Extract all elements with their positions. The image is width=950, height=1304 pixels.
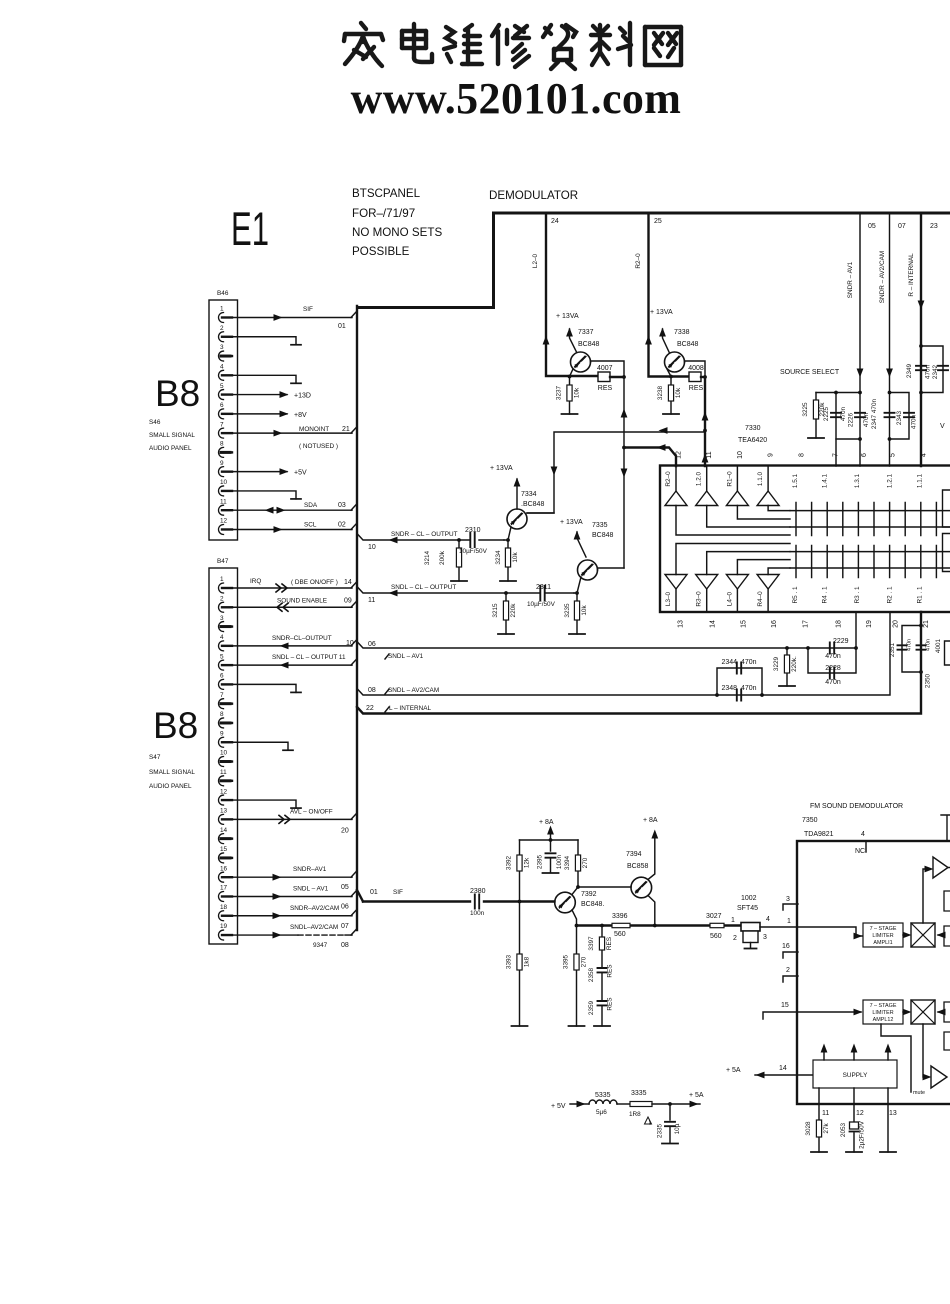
svg-text:05: 05: [341, 884, 349, 891]
svg-text:R3 . 1: R3 . 1: [854, 586, 861, 603]
svg-text:NO MONO SETS: NO MONO SETS: [352, 226, 442, 239]
buffer amp R2-0 (input): [665, 491, 687, 506]
svg-text:SNDR–AV2/CAM: SNDR–AV2/CAM: [290, 905, 339, 912]
svg-text:5335: 5335: [595, 1092, 611, 1099]
wire SNDL-CL-OUTPUT pin5: [226, 664, 352, 666]
svg-text:3225: 3225: [802, 402, 809, 417]
resistor 3027 560: [710, 923, 724, 927]
buffer amp R4-0 (output): [757, 575, 779, 590]
svg-text:BTSCPANEL: BTSCPANEL: [352, 187, 421, 200]
svg-text:4: 4: [861, 831, 865, 838]
svg-text:2µ2F/50V: 2µ2F/50V: [859, 1120, 866, 1149]
svg-text:NC: NC: [855, 848, 865, 855]
svg-text:TDA9821: TDA9821: [804, 831, 834, 838]
svg-text:L4–0: L4–0: [726, 591, 733, 606]
svg-text:16: 16: [782, 943, 790, 950]
svg-text:R2–0: R2–0: [635, 253, 642, 269]
svg-text:POSSIBLE: POSSIBLE: [352, 245, 410, 258]
svg-text:SIF: SIF: [303, 306, 313, 313]
svg-text:BC848: BC848: [592, 532, 614, 539]
svg-text:SNDR–CL–OUTPUT: SNDR–CL–OUTPUT: [272, 635, 332, 642]
resistor 3215 220k: [504, 591, 508, 595]
svg-text:25: 25: [654, 218, 662, 225]
wire SNDL-AV2/CAM (08) to pin 20: [357, 612, 890, 695]
svg-text:7338: 7338: [674, 329, 690, 336]
svg-text:2225: 2225: [823, 406, 830, 421]
svg-text:02: 02: [338, 521, 346, 528]
svg-text:3392: 3392: [506, 855, 513, 870]
svg-text:06: 06: [341, 903, 349, 910]
capacitor 2226 470n: [855, 413, 865, 417]
svg-text:270: 270: [582, 857, 589, 868]
ground stub pin12: [226, 800, 296, 808]
capacitor 2343: [890, 393, 910, 440]
svg-text:FM SOUND DEMODULATOR: FM SOUND DEMODULATOR: [810, 803, 903, 810]
connector B46: [209, 300, 238, 540]
svg-text:S47: S47: [149, 754, 161, 761]
wire SCL pin12: [226, 528, 352, 530]
svg-text:270: 270: [581, 956, 588, 967]
svg-text:mute: mute: [913, 1090, 925, 1096]
svg-text:5µ6: 5µ6: [596, 1109, 607, 1116]
svg-text:AUDIO PANEL: AUDIO PANEL: [149, 783, 192, 790]
svg-text:1.2.1: 1.2.1: [887, 473, 894, 488]
svg-text:1R8: 1R8: [629, 1111, 641, 1118]
svg-text:06: 06: [368, 641, 376, 648]
wire R-INTERNAL (23): [920, 214, 922, 466]
svg-text:10: 10: [346, 640, 354, 647]
supply +8A arrow: [550, 829, 552, 840]
svg-text:2343: 2343: [896, 410, 903, 425]
svg-text:1: 1: [731, 917, 735, 924]
capacitor 2335 10u: [668, 1102, 672, 1106]
svg-text:.BC848: .BC848: [521, 501, 544, 508]
svg-text:14: 14: [710, 620, 717, 628]
svg-text:L – INTERNAL: L – INTERNAL: [389, 705, 431, 712]
svg-text:2: 2: [220, 325, 224, 332]
svg-text:B46: B46: [217, 290, 229, 297]
svg-text:2053: 2053: [840, 1122, 847, 1137]
crossbar grid (bottom): [790, 552, 950, 568]
svg-text:12k: 12k: [524, 857, 531, 868]
wire SNDL-AV1 (06) to pin 19: [357, 642, 856, 649]
svg-text:10k: 10k: [512, 552, 519, 563]
svg-text:SNDR – AV2/CAM: SNDR – AV2/CAM: [879, 251, 886, 303]
svg-text:2358: 2358: [588, 967, 595, 982]
svg-text:2311: 2311: [536, 584, 551, 591]
resistor 3235 10k: [575, 591, 579, 595]
svg-text:R2 . 1: R2 . 1: [887, 586, 894, 603]
svg-text:14: 14: [779, 1065, 787, 1072]
capacitor 2342: [921, 346, 943, 393]
svg-text:+ 5A: + 5A: [689, 1092, 704, 1099]
svg-text:SFT45: SFT45: [737, 905, 758, 912]
capacitor 2347 470n: [889, 393, 891, 467]
ground stub pin10: [226, 491, 296, 499]
svg-text:+13D: +13D: [294, 393, 311, 400]
svg-text:14: 14: [220, 827, 228, 834]
svg-text:470n: 470n: [840, 406, 847, 421]
resistor 3394 270: [577, 840, 579, 887]
svg-text:SCL: SCL: [304, 521, 317, 528]
svg-text:10: 10: [220, 479, 228, 486]
svg-text:1.5.1: 1.5.1: [792, 473, 799, 488]
svg-text:AVL – ON/OFF: AVL – ON/OFF: [290, 808, 333, 815]
buffer amp L4-0 (output): [726, 575, 748, 590]
svg-text:V: V: [940, 423, 945, 430]
svg-text:18: 18: [220, 904, 228, 911]
svg-text:220k: 220k: [510, 603, 517, 618]
svg-text:470n: 470n: [825, 653, 841, 660]
svg-text:1: 1: [787, 918, 791, 925]
pin 16 stub: [783, 952, 798, 958]
wire node to TEA6420 pin 12: [623, 377, 625, 568]
svg-text:3238: 3238: [657, 385, 664, 400]
svg-text:11: 11: [822, 1110, 829, 1117]
svg-text:RES: RES: [607, 997, 614, 1010]
svg-text:RES: RES: [689, 385, 704, 392]
svg-text:16: 16: [220, 865, 228, 872]
svg-text:2310: 2310: [465, 527, 481, 534]
svg-text:200k: 200k: [439, 550, 446, 565]
svg-text:5: 5: [220, 653, 224, 660]
connector B47: [209, 568, 238, 944]
svg-text:+5V: +5V: [294, 470, 307, 477]
wire top bus to demodulator: [494, 213, 950, 308]
resistor 3335 1R8: [630, 1102, 652, 1107]
svg-text:1: 1: [220, 576, 224, 583]
svg-text:2: 2: [220, 595, 224, 602]
capacitor 2351 470n: [902, 626, 921, 673]
svg-text:2226: 2226: [848, 412, 855, 427]
wire 7334 collector to pin 11: [527, 432, 705, 513]
capacitor 2053 2u2/50V: [853, 1104, 855, 1152]
svg-text:3395: 3395: [563, 954, 570, 969]
svg-text:10k: 10k: [675, 387, 682, 398]
svg-text:R4 . 1: R4 . 1: [822, 586, 829, 603]
svg-text:22: 22: [366, 705, 374, 712]
wire SNDR-CL-OUTPUT (10): [357, 534, 470, 541]
svg-text:3: 3: [763, 934, 767, 941]
svg-text:R4–0: R4–0: [757, 591, 764, 607]
wire SNDL-CL-OUTPUT (11): [357, 587, 540, 594]
SUPPLY block: [755, 1074, 813, 1076]
svg-text:2: 2: [733, 935, 737, 942]
svg-text:05: 05: [868, 223, 876, 230]
svg-text:SNDL – CL – OUTPUT: SNDL – CL – OUTPUT: [391, 584, 456, 591]
svg-text:19: 19: [220, 923, 228, 930]
capacitor 2310 10uF/50V: [470, 533, 474, 547]
svg-text:+ 5V: + 5V: [551, 1103, 566, 1110]
svg-text:20: 20: [893, 620, 900, 628]
svg-text:SMALL SIGNAL: SMALL SIGNAL: [149, 432, 195, 439]
svg-text:03: 03: [338, 502, 346, 509]
svg-text:3229: 3229: [773, 656, 780, 671]
svg-text:3335: 3335: [631, 1090, 647, 1097]
svg-text:7: 7: [220, 421, 224, 428]
svg-text:12: 12: [220, 518, 228, 525]
svg-text:R2–0: R2–0: [665, 471, 672, 487]
mixer 2: [903, 1011, 908, 1013]
svg-text:R3–0: R3–0: [696, 591, 703, 607]
resistor chain 3397/2358/2359: [601, 926, 603, 1027]
svg-text:9: 9: [220, 460, 224, 467]
svg-text:1.4.1: 1.4.1: [822, 473, 829, 488]
wire SOUND ENABLE pin2: [226, 606, 352, 608]
svg-text:AUDIO PANEL: AUDIO PANEL: [149, 445, 192, 452]
svg-text:1002: 1002: [741, 895, 757, 902]
wire L2-0 (24): [546, 214, 598, 376]
svg-text:560: 560: [710, 933, 722, 940]
svg-text:470n: 470n: [926, 639, 932, 651]
resistor 3237 10k: [569, 377, 571, 415]
wire SNDL-AV1 pin17: [226, 895, 352, 897]
svg-text:8: 8: [220, 711, 224, 718]
capacitor 2228 470n: [808, 648, 856, 673]
svg-text:19: 19: [866, 620, 873, 628]
svg-text:+ 8A: + 8A: [539, 819, 554, 826]
svg-text:7350: 7350: [802, 817, 818, 824]
resistor 3395 270: [576, 926, 578, 1027]
svg-text:SUPPLY: SUPPLY: [843, 1072, 868, 1079]
wire +13D pin5: [226, 394, 287, 396]
svg-text:LIMITER: LIMITER: [872, 933, 893, 939]
wire L-INTERNAL (22) to pin 21: [357, 612, 921, 714]
svg-text:3: 3: [220, 615, 224, 622]
svg-text:11: 11: [706, 451, 713, 458]
wire IRQ / DBE ON/OFF pin1: [226, 587, 352, 589]
svg-text:5: 5: [220, 383, 224, 390]
svg-text:7 – STAGE: 7 – STAGE: [870, 1003, 897, 1009]
svg-text:6: 6: [861, 453, 868, 457]
resistor 3229 220k: [785, 646, 789, 650]
svg-text:BC848: BC848: [677, 341, 699, 348]
svg-text:2359: 2359: [588, 1000, 595, 1015]
pin 3 stub: [783, 904, 798, 910]
partial component above IC (cut): [941, 815, 950, 841]
wire SIF pin1: [226, 317, 352, 319]
svg-text:2228: 2228: [825, 665, 841, 672]
svg-text:3027: 3027: [706, 913, 722, 920]
wire SNDR-CL-OUTPUT pin4: [226, 645, 352, 647]
ground stub pin4: [226, 375, 296, 383]
svg-text:2350: 2350: [925, 673, 932, 688]
svg-text:1: 1: [220, 306, 224, 313]
svg-text:SNDL–AV2/CAM: SNDL–AV2/CAM: [290, 924, 338, 931]
inductor 5335 5u6: [589, 1100, 617, 1104]
capacitor 2395 100n: [550, 840, 552, 851]
svg-text:SIF: SIF: [393, 889, 403, 896]
svg-text:3397: 3397: [588, 936, 595, 951]
svg-text:09: 09: [344, 597, 352, 604]
pin 13 ground: [887, 1104, 889, 1152]
svg-text:AMPLI1: AMPLI1: [873, 940, 892, 946]
svg-text:SNDR – CL – OUTPUT: SNDR – CL – OUTPUT: [391, 531, 458, 538]
svg-text:3215: 3215: [492, 603, 499, 618]
wire SNDL-AV2/CAM pin19 (dashed 9347): [226, 934, 298, 936]
crossbar grid (top): [790, 511, 950, 527]
svg-text:B8: B8: [155, 373, 200, 414]
svg-text:2229: 2229: [833, 638, 849, 645]
svg-text:L2–0: L2–0: [532, 253, 539, 268]
svg-text:10µ: 10µ: [674, 1123, 681, 1134]
svg-text:BC848.: BC848.: [581, 901, 604, 908]
svg-text:SDA: SDA: [304, 502, 318, 509]
svg-text:3235: 3235: [564, 603, 571, 618]
capacitor 2350 470n (on pin21 line): [917, 645, 926, 649]
capacitor 2380 100n: [475, 895, 479, 909]
svg-text:+ 13VA: + 13VA: [556, 313, 579, 320]
wire SNDR-AV2/CAM pin18: [226, 915, 352, 917]
resistor 3234 10k: [506, 538, 510, 542]
svg-text:TEA6420: TEA6420: [738, 437, 767, 444]
resistor 3238 10k: [670, 377, 672, 415]
svg-text:3234: 3234: [495, 550, 502, 565]
svg-text:220k.: 220k.: [791, 656, 798, 672]
svg-text:2351: 2351: [889, 642, 896, 657]
svg-text:+ 8A: + 8A: [643, 817, 658, 824]
capacitor 2349 470n: [916, 366, 926, 370]
svg-text:LIMITER: LIMITER: [872, 1010, 893, 1016]
svg-text:6: 6: [220, 673, 224, 680]
svg-text:R – INTERNAL: R – INTERNAL: [908, 253, 915, 297]
svg-text:4: 4: [220, 634, 224, 641]
svg-text:10k: 10k: [574, 387, 581, 398]
resistor 3028 27k: [818, 1104, 820, 1152]
svg-text:470n: 470n: [863, 412, 870, 427]
ground stub pin9: [226, 742, 288, 750]
svg-text:3: 3: [786, 896, 790, 903]
buffer amp R1-0 (input): [726, 491, 748, 506]
svg-text:7334: 7334: [521, 491, 537, 498]
svg-text:21: 21: [342, 426, 350, 433]
svg-text:E1: E1: [231, 202, 269, 255]
svg-text:R5 . 1: R5 . 1: [792, 586, 799, 603]
svg-text:SNDR – AV1: SNDR – AV1: [847, 261, 854, 298]
svg-text:07: 07: [341, 923, 349, 930]
svg-text:SOUND ENABLE: SOUND ENABLE: [277, 597, 327, 604]
svg-text:SNDL – CL – OUTPUT 11: SNDL – CL – OUTPUT 11: [272, 654, 346, 661]
svg-text:BC848: BC848: [578, 341, 600, 348]
svg-text:16: 16: [771, 620, 778, 628]
svg-text:21: 21: [923, 620, 930, 628]
svg-text:3214: 3214: [424, 550, 431, 565]
svg-text:1.1.1: 1.1.1: [917, 473, 924, 488]
svg-text:9: 9: [768, 453, 775, 457]
ground stub pin6: [226, 684, 296, 692]
svg-text:+ 5A: + 5A: [726, 1067, 741, 1074]
svg-text:18: 18: [836, 620, 843, 628]
svg-text:3237: 3237: [556, 385, 563, 400]
svg-text:+ 13VA: + 13VA: [490, 465, 513, 472]
svg-text:FOR–/71/97: FOR–/71/97: [352, 207, 415, 220]
svg-text:www.520101.com: www.520101.com: [351, 74, 682, 123]
svg-text:SNDR–AV1: SNDR–AV1: [293, 866, 327, 873]
capacitor 2344 470n: [717, 668, 762, 695]
svg-text:2349: 2349: [906, 363, 913, 378]
svg-text:470n: 470n: [911, 414, 918, 429]
svg-text:7330: 7330: [745, 425, 761, 432]
svg-text:470n: 470n: [925, 364, 932, 379]
svg-text:7335: 7335: [592, 522, 608, 529]
capacitor 2225 470n: [835, 393, 837, 467]
svg-text:2: 2: [786, 967, 790, 974]
svg-text:S46: S46: [149, 419, 161, 426]
svg-text:12: 12: [220, 788, 228, 795]
buffer amp L3-0 (output): [665, 575, 687, 590]
svg-text:4001: 4001: [935, 638, 942, 653]
svg-text:13: 13: [678, 620, 685, 628]
wire AVL-ON/OFF pin13: [226, 818, 352, 820]
jumper 4008 RES: [689, 372, 701, 382]
svg-text:15: 15: [741, 620, 748, 628]
resistor 3392 12k: [518, 900, 522, 904]
svg-text:9: 9: [220, 730, 224, 737]
svg-text:3396: 3396: [612, 913, 628, 920]
wire SNDR-AV1 (05): [859, 214, 861, 466]
svg-text:100n: 100n: [470, 910, 485, 917]
svg-text:5: 5: [890, 453, 897, 457]
svg-text:7: 7: [833, 453, 840, 457]
capacitor 2348 470n: [737, 690, 741, 701]
svg-text:10µF/50V: 10µF/50V: [527, 601, 556, 608]
ground stub pin2: [226, 337, 296, 345]
svg-text:15: 15: [220, 846, 228, 853]
svg-text:560: 560: [614, 931, 626, 938]
svg-text:470n: 470n: [907, 639, 913, 651]
watermark Chinese title (approximated strokes): [344, 23, 681, 69]
resistor 3214 200k: [457, 538, 461, 542]
limiter amplifier AMPL11: [863, 923, 903, 947]
main audio rail to demodulator: [577, 924, 742, 926]
svg-text:3394: 3394: [564, 855, 571, 870]
svg-text:4008: 4008: [688, 365, 704, 372]
svg-text:12: 12: [676, 451, 683, 459]
svg-text:L3–0: L3–0: [665, 591, 672, 606]
wire +8A rail: [520, 839, 579, 841]
resistor 3393 1k8: [519, 902, 521, 1027]
svg-text:3028: 3028: [805, 1121, 812, 1136]
IC 7330 TEA6420 box: [660, 466, 950, 613]
capacitor 2229 470n: [830, 643, 834, 654]
svg-text:20: 20: [341, 827, 349, 834]
svg-text:7: 7: [220, 692, 224, 699]
demod amp triangle (bottom) + mute: [923, 1024, 927, 1077]
svg-text:3: 3: [220, 344, 224, 351]
svg-text:2342: 2342: [932, 364, 939, 379]
svg-text:1.1.0: 1.1.0: [757, 471, 764, 486]
svg-text:11: 11: [368, 597, 375, 604]
svg-text:SNDL – AV1: SNDL – AV1: [293, 885, 329, 892]
svg-text:01: 01: [338, 323, 346, 330]
svg-text:8: 8: [220, 441, 224, 448]
svg-text:08: 08: [368, 687, 376, 694]
svg-text:23: 23: [930, 223, 938, 230]
svg-text:1k8: 1k8: [524, 956, 531, 967]
svg-text:13: 13: [889, 1110, 897, 1117]
svg-text:BC858: BC858: [627, 863, 649, 870]
mute block boundary: [881, 1024, 911, 1092]
wire SDA pin11: [226, 509, 352, 511]
svg-text:R1 . 1: R1 . 1: [917, 586, 924, 603]
wire MONOINT pin7: [226, 432, 352, 434]
svg-text:4: 4: [766, 916, 770, 923]
svg-text:7392: 7392: [581, 891, 597, 898]
svg-text:2348 470n: 2348 470n: [721, 685, 756, 692]
svg-text:RES: RES: [598, 385, 613, 392]
svg-text:+ 13VA: + 13VA: [560, 519, 583, 526]
svg-text:2347 470n: 2347 470n: [871, 398, 878, 429]
